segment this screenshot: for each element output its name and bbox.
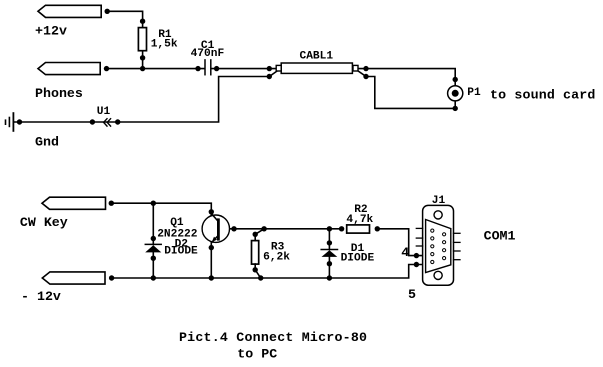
svg-text:4,7k: 4,7k (346, 214, 373, 226)
svg-text:CABL1: CABL1 (300, 51, 334, 63)
svg-text:1,5k: 1,5k (151, 39, 178, 51)
svg-text:Gnd: Gnd (35, 135, 59, 150)
svg-text:Phones: Phones (35, 86, 83, 101)
svg-text:J1: J1 (432, 195, 446, 207)
svg-text:U1: U1 (97, 106, 111, 118)
svg-text:P1: P1 (467, 87, 481, 99)
svg-text:DIODE: DIODE (341, 252, 375, 264)
svg-text:CW Key: CW Key (20, 215, 68, 230)
svg-text:COM1: COM1 (484, 229, 516, 244)
svg-text:- 12v: - 12v (21, 289, 61, 304)
svg-text:470nF: 470nF (191, 48, 225, 60)
svg-text:6,2k: 6,2k (263, 252, 290, 264)
svg-text:Pict.4 Connect Micro-80: Pict.4 Connect Micro-80 (179, 330, 367, 345)
svg-text:to PC: to PC (237, 346, 277, 361)
svg-text:DIODE: DIODE (164, 246, 198, 258)
svg-text:Q1: Q1 (170, 217, 184, 229)
svg-text:+12v: +12v (35, 23, 67, 38)
svg-text:4: 4 (401, 245, 409, 260)
svg-text:5: 5 (408, 287, 416, 302)
svg-text:to sound card: to sound card (490, 87, 595, 102)
